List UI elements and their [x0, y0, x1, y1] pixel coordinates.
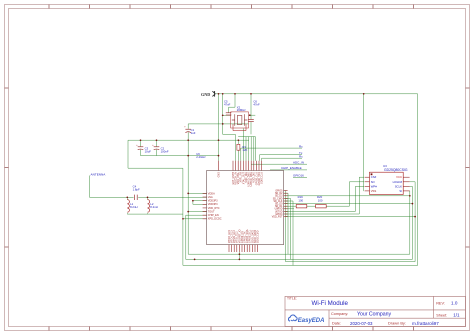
- svg-text:1/1: 1/1: [453, 313, 460, 318]
- svg-text:GND: GND: [217, 172, 220, 178]
- svg-text:GD25Q80CSIG: GD25Q80CSIG: [384, 168, 408, 172]
- svg-text:VSS: VSS: [371, 189, 377, 193]
- svg-text:GND: GND: [201, 92, 210, 97]
- svg-text:100nF: 100nF: [161, 149, 169, 153]
- svg-text:VDD3P3: VDD3P3: [208, 203, 218, 206]
- svg-text:WP#: WP#: [371, 184, 378, 188]
- svg-text:Company:: Company:: [331, 312, 348, 316]
- svg-text:2.4GHz: 2.4GHz: [196, 155, 206, 159]
- svg-text:10uF: 10uF: [145, 149, 152, 153]
- svg-text:XPD_DCDC: XPD_DCDC: [208, 218, 222, 221]
- svg-text:2020-07-03: 2020-07-03: [350, 321, 373, 326]
- svg-text:Rx: Rx: [299, 144, 303, 148]
- svg-text:m.frattaroli97: m.frattaroli97: [412, 321, 439, 326]
- svg-text:REV:: REV:: [436, 301, 445, 305]
- svg-text:12K: 12K: [242, 148, 247, 152]
- svg-text:CS#: CS#: [371, 175, 377, 179]
- svg-text:1.0: 1.0: [451, 300, 458, 305]
- svg-text:SI: SI: [399, 189, 402, 193]
- svg-text:TITLE:: TITLE:: [287, 297, 297, 301]
- svg-text:VDDA: VDDA: [208, 192, 215, 195]
- svg-text:Drawn By:: Drawn By:: [388, 321, 406, 326]
- svg-text:47nF: 47nF: [224, 102, 231, 106]
- svg-text:TOUT: TOUT: [208, 210, 215, 213]
- svg-text:26MHz: 26MHz: [237, 108, 246, 112]
- svg-text:Rx: Rx: [299, 154, 303, 158]
- svg-text:ANTENNA: ANTENNA: [91, 172, 107, 176]
- svg-text:Your Company: Your Company: [357, 311, 392, 317]
- svg-text:SDIO_CMD: SDIO_CMD: [257, 230, 260, 243]
- svg-text:Date:: Date:: [332, 321, 341, 325]
- svg-text:8.2nH: 8.2nH: [130, 205, 137, 209]
- svg-text:EasyEDA: EasyEDA: [298, 318, 325, 324]
- svg-text:8.2nH: 8.2nH: [150, 205, 157, 209]
- svg-text:GPIO16: GPIO16: [293, 174, 304, 178]
- svg-text:1.8pF: 1.8pF: [133, 188, 140, 192]
- svg-text:ADC_IN: ADC_IN: [293, 160, 304, 164]
- svg-text:SCLK: SCLK: [395, 184, 402, 188]
- svg-text:CHIP_EN: CHIP_EN: [208, 214, 219, 217]
- svg-text:LNA: LNA: [208, 196, 213, 199]
- svg-text:HOLD#: HOLD#: [393, 180, 403, 184]
- svg-text:100: 100: [318, 198, 323, 202]
- svg-text:Wi-Fi Module: Wi-Fi Module: [312, 300, 349, 307]
- svg-text:CHIP_ENABLE: CHIP_ENABLE: [281, 166, 302, 170]
- svg-text:VDD3P3: VDD3P3: [208, 200, 218, 203]
- svg-text:VDD_RTC: VDD_RTC: [208, 207, 220, 210]
- svg-text:1uF: 1uF: [191, 131, 196, 135]
- svg-text:VDD_PST: VDD_PST: [272, 217, 283, 219]
- svg-text:47nF: 47nF: [253, 102, 260, 106]
- svg-text:Sheet:: Sheet:: [436, 313, 447, 317]
- svg-text:SDIO_CLK: SDIO_CLK: [261, 172, 264, 184]
- svg-text:VCC: VCC: [396, 175, 402, 179]
- svg-text:100: 100: [298, 198, 303, 202]
